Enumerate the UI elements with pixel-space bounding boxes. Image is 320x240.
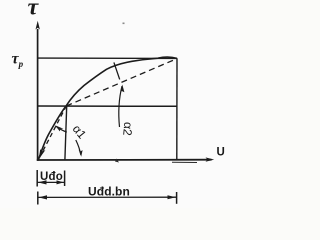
Udo dimension right tick — [64, 171, 66, 187]
characteristic curve — [38, 57, 177, 160]
dashed chord O to Udo point — [40, 106, 67, 158]
alpha1 arc lower arrowhead — [79, 150, 83, 157]
alpha2 arc arrowhead — [120, 85, 124, 94]
y-axis arrowhead — [36, 21, 40, 30]
Udo dimension right arrow — [57, 180, 64, 184]
right vertical dropline — [176, 58, 178, 160]
paper background — [0, 0, 240, 208]
Uddbn dimension left arrow — [39, 195, 47, 199]
alpha2 bottom tick — [115, 159, 119, 163]
tau_sp level line — [38, 57, 177, 59]
Udo vertical dropline — [65, 106, 67, 160]
Uddbn dimension line — [38, 196, 177, 198]
alpha2 arc — [119, 86, 122, 127]
scan speck — [123, 23, 125, 25]
Udo dimension line — [37, 181, 64, 183]
Uddbn dimension right tick — [176, 192, 178, 204]
Uddbn dimension right arrow — [168, 195, 176, 199]
Uddbn dimension left tick — [37, 192, 39, 205]
tangency tick on curve — [114, 62, 120, 79]
alpha1 arc upper arrowhead — [55, 125, 64, 131]
x-axis — [37, 159, 212, 161]
Udo dimension left tick — [36, 170, 38, 187]
svg-text:U: U — [217, 147, 225, 159]
alpha1 arc lower segment — [76, 140, 81, 155]
svg-text:τ: τ — [28, 0, 40, 20]
alpha1 arc upper segment — [56, 126, 67, 132]
svg-text:Uđo: Uđo — [40, 171, 63, 183]
x-axis doubled scan stroke — [172, 161, 197, 163]
y-axis — [37, 29, 39, 161]
origin arrowhead blob — [39, 149, 46, 159]
middle level line — [38, 105, 177, 107]
svg-text:Uđd.bn: Uđd.bn — [88, 185, 130, 199]
dashed chord Udo point to corner — [66, 59, 177, 106]
Udo dimension left arrow — [38, 180, 47, 184]
svg-text:α2: α2 — [120, 121, 135, 136]
x-axis arrowhead — [206, 157, 215, 161]
